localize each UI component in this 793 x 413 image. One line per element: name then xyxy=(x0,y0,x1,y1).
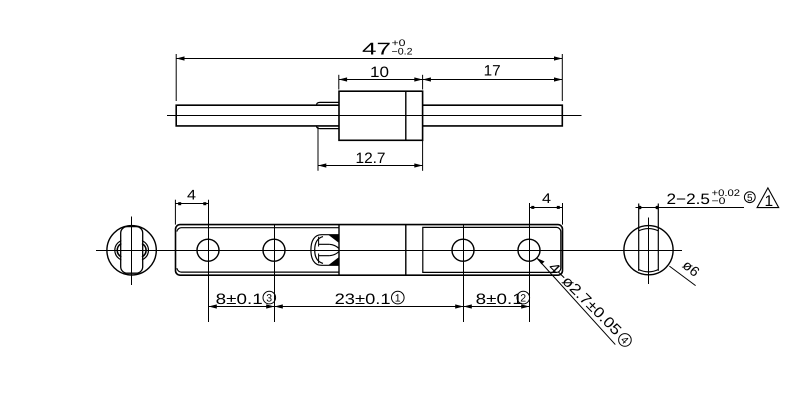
left end view bar cross-section xyxy=(121,227,143,274)
svg-text:−0: −0 xyxy=(712,196,726,207)
dim 2-2.5 dimension line xyxy=(636,207,745,209)
leader line for hole callout xyxy=(537,258,616,345)
hole 4 xyxy=(518,239,540,261)
right end view flat / extension line right xyxy=(657,204,659,271)
left end view circle xyxy=(107,226,156,275)
side view block divider line xyxy=(405,91,407,140)
svg-text:2−2.5: 2−2.5 xyxy=(667,191,711,208)
revision triangle 1 xyxy=(757,188,779,210)
extension/centerline through hole 1 xyxy=(208,200,210,322)
balloon 4 xyxy=(616,331,634,349)
dim 17 arrowhead right xyxy=(554,77,562,81)
dim 12.7 extension line right xyxy=(422,140,424,171)
svg-text:−0.2: −0.2 xyxy=(392,47,413,58)
dim 12.7 dimension line xyxy=(318,165,423,167)
plan view inner rectangle (right segment) xyxy=(423,227,561,272)
side view bar outline right segment xyxy=(423,105,563,126)
side view bar outline left segment xyxy=(176,105,339,126)
lower dimension line (8 / 23 / 8) xyxy=(209,306,530,308)
dim 17 arrowhead left xyxy=(423,77,431,81)
left end view clip tab (right bulge) xyxy=(142,241,149,261)
hole callout text 4-ø2.7±0.05 xyxy=(545,259,636,350)
svg-text:47: 47 xyxy=(362,40,391,59)
right end view circle xyxy=(624,226,673,275)
balloon 2 xyxy=(517,291,530,304)
extension line at bar right end (for 4 dim) xyxy=(562,203,564,225)
right end view cross-section bottom arc xyxy=(639,270,659,272)
svg-text:1: 1 xyxy=(765,193,774,210)
svg-text:17: 17 xyxy=(484,62,501,79)
dim 47 extension line left xyxy=(175,54,177,101)
svg-text:10: 10 xyxy=(370,64,389,81)
extension/centerline through hole 3 xyxy=(463,225,465,322)
dim 17 dimension line xyxy=(423,79,563,81)
arrowheads at hole3 extension xyxy=(455,304,463,308)
arrowheads at hole2 extension xyxy=(266,304,274,308)
svg-text:4: 4 xyxy=(542,190,551,206)
plan view transverse line at crown right edge xyxy=(338,225,340,276)
left end view clip tab (left bulge) xyxy=(115,241,122,261)
plan view bar outline (rounded ends) xyxy=(176,225,563,276)
dim 4 right dot terminators xyxy=(531,206,560,209)
plan view inner top edge line (left segment) xyxy=(177,228,339,232)
dim 10/17 shared extension line at block right xyxy=(422,75,424,90)
dim 47 extension line right xyxy=(561,54,563,101)
svg-text:3: 3 xyxy=(266,292,272,304)
dim 10 arrowhead right xyxy=(414,77,422,81)
dim 10 dimension line xyxy=(339,79,423,81)
hole 3 xyxy=(452,239,474,261)
plan view transverse line (block step) xyxy=(405,225,407,276)
dim 4 left dot terminators xyxy=(178,202,206,205)
right end view cross-section top arc xyxy=(639,229,659,231)
dim 4 right dimension line xyxy=(530,207,563,209)
balloon 3 xyxy=(263,291,276,304)
right end view flat / extension line left xyxy=(638,204,640,271)
svg-text:4: 4 xyxy=(187,187,196,203)
dim 12.7 arrowhead right xyxy=(414,163,422,167)
dim 4 left dimension line xyxy=(175,203,208,205)
svg-text:5: 5 xyxy=(747,193,753,204)
left end view vertical centerline xyxy=(131,217,133,286)
dim 12.7 extension line left xyxy=(317,127,319,171)
dim 12.7 arrowhead left xyxy=(318,163,326,167)
extension/centerline through hole 2 xyxy=(274,225,276,322)
arrowhead at hole1 extension xyxy=(209,304,217,308)
hole 2 xyxy=(263,239,285,261)
dim 10 arrowhead left xyxy=(339,77,347,81)
dim 2-2.5 dot terminators xyxy=(638,206,659,210)
svg-text:2: 2 xyxy=(520,292,526,304)
leader arrowhead xyxy=(537,258,545,264)
hole 1 xyxy=(197,239,219,261)
leader line for Ø6 xyxy=(669,266,695,286)
svg-text:8±0.1: 8±0.1 xyxy=(216,291,263,308)
right end view vertical centerline xyxy=(648,218,650,285)
svg-text:12.7: 12.7 xyxy=(356,150,386,167)
balloon 1 xyxy=(392,291,405,304)
arrowhead at hole4 extension xyxy=(521,304,529,308)
svg-text:8±0.1: 8±0.1 xyxy=(476,291,523,308)
extension line at bar left end (for 4 dim) xyxy=(174,200,176,225)
side view horizontal centerline xyxy=(167,115,582,117)
dim 10/17 extension line at block left xyxy=(338,75,340,90)
svg-text:1: 1 xyxy=(395,292,401,304)
side view center block xyxy=(339,91,423,140)
crown spring clip (front view) xyxy=(311,235,339,266)
svg-text:23±0.1: 23±0.1 xyxy=(335,291,391,308)
dim 47 arrowhead right xyxy=(554,56,562,60)
dim 47 arrowhead left xyxy=(176,56,184,60)
side view bottom clip tab xyxy=(317,126,340,129)
extension/centerline through hole 4 xyxy=(529,203,531,322)
plan view inner bottom edge line (left segment) xyxy=(177,268,339,272)
dim 47 dimension line xyxy=(176,58,562,60)
side view top clip tab xyxy=(317,102,340,105)
plan view horizontal centerline xyxy=(96,250,682,252)
balloon 5 xyxy=(744,192,755,204)
